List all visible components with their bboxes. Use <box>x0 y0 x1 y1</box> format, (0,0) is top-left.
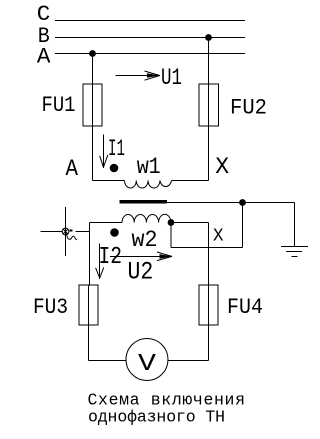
wire FU3 down <box>88 285 90 361</box>
probe symbol circle cross <box>63 229 68 234</box>
wire FU2 to corner <box>208 126 210 181</box>
fuse FU3 <box>79 285 98 325</box>
probe symbol circle <box>62 228 69 235</box>
svg-text:X: X <box>215 154 229 180</box>
svg-text:I1: I1 <box>108 136 125 162</box>
wire w1 to right corner <box>172 180 209 182</box>
arrow U2 <box>110 256 170 258</box>
arrow I1 <box>103 135 105 169</box>
earth wire from core <box>167 202 295 204</box>
wire FU1 to winding corner <box>92 126 94 181</box>
polarity dot w2 <box>110 228 119 237</box>
fuse FU1 <box>83 84 102 126</box>
junction dot on A <box>89 50 96 57</box>
wire to voltmeter left <box>89 360 127 362</box>
X-terminal box bottom <box>171 247 243 249</box>
svg-text:A: A <box>66 156 79 182</box>
junction dot earth <box>239 199 246 206</box>
bus wire C <box>55 20 245 22</box>
svg-text:FU3: FU3 <box>33 294 68 320</box>
fuse FU4 <box>199 285 218 325</box>
svg-text:U1: U1 <box>161 65 182 91</box>
wire FU4 down <box>208 248 210 361</box>
fuse FU2 <box>199 84 219 126</box>
wire A-dot to FU1 <box>92 54 94 127</box>
svg-text:X: X <box>213 227 224 247</box>
voltmeter V <box>126 339 168 381</box>
wire w2 left <box>90 222 123 224</box>
transformer core <box>120 200 168 204</box>
wire down to ground <box>294 203 296 247</box>
svg-text:U2: U2 <box>128 258 154 287</box>
winding w2 <box>122 214 171 222</box>
X-terminal box left <box>170 223 172 248</box>
probe symbol vertical <box>65 207 67 256</box>
X-terminal box top <box>171 222 209 224</box>
bus wire B <box>55 37 245 39</box>
svg-text:w1: w1 <box>137 154 161 180</box>
wire voltmeter right <box>168 360 209 362</box>
wire B-dot to FU2 <box>208 38 210 127</box>
probe symbol dash <box>70 230 73 232</box>
winding w1 <box>125 181 172 189</box>
probe symbol squiggle <box>66 233 77 240</box>
ground <box>281 246 308 248</box>
svg-text:V: V <box>138 351 157 378</box>
svg-text:однофазного ТН: однофазного ТН <box>88 408 225 427</box>
svg-text:w2: w2 <box>132 227 158 254</box>
arrow I2 <box>99 244 101 280</box>
wire w2 corner down to FU3 <box>89 223 91 286</box>
arrow U1 <box>116 75 159 77</box>
svg-text:FU1: FU1 <box>42 92 76 118</box>
wire box to FU4 <box>208 223 210 248</box>
junction dot on B <box>205 34 212 41</box>
junction dot w2-X <box>168 219 175 226</box>
svg-text:FU4: FU4 <box>227 294 263 320</box>
wire earth dot to box <box>242 203 244 248</box>
probe symbol horizontal <box>41 231 63 233</box>
wire probe to main <box>76 231 90 233</box>
svg-text:FU2: FU2 <box>230 95 267 121</box>
svg-text:A: A <box>37 45 51 70</box>
svg-text:I2: I2 <box>99 244 123 271</box>
polarity dot w1 <box>110 164 119 173</box>
wire corner to w1 <box>93 180 125 182</box>
bus wire A <box>55 53 245 55</box>
